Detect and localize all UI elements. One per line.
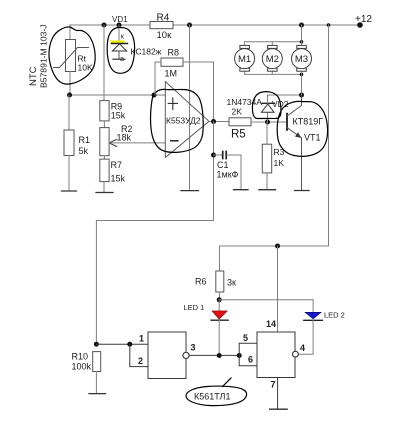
node collector junction bbox=[299, 93, 304, 98]
zener diode VD2 bbox=[262, 95, 275, 122]
svg-text:+12: +12 bbox=[355, 14, 372, 25]
svg-text:3: 3 bbox=[191, 343, 196, 353]
svg-text:1: 1 bbox=[139, 334, 144, 344]
annotation blob around VD1 bbox=[107, 28, 134, 74]
wire pin 7 bbox=[277, 378, 279, 410]
wire output down to C1 bbox=[213, 122, 215, 221]
wire top +12 rail right segment bbox=[173, 24, 360, 26]
wire R7 bottom lead bbox=[103, 182, 105, 193]
svg-text:100k: 100k bbox=[72, 362, 92, 372]
node R6/LED junction bbox=[217, 297, 222, 302]
svg-text:R3: R3 bbox=[274, 147, 285, 157]
wire motor bottom bus bbox=[245, 73, 302, 75]
node junction rail/VD1 bbox=[117, 23, 122, 28]
annotation blob around Rt bbox=[49, 27, 95, 84]
svg-text:M1: M1 bbox=[238, 54, 251, 65]
wire pin 2 bracket bbox=[130, 344, 148, 366]
svg-text:B57891-M 103-J: B57891-M 103-J bbox=[39, 24, 49, 88]
wire Rt top lead bbox=[69, 25, 71, 40]
svg-text:14: 14 bbox=[266, 319, 276, 329]
svg-text:VT1: VT1 bbox=[304, 133, 321, 143]
wire R2-R7 link bbox=[103, 156, 105, 159]
svg-text:10K: 10K bbox=[78, 63, 93, 73]
ground VT1 emitter bbox=[295, 190, 310, 192]
wire mid rail bbox=[70, 94, 166, 96]
node junction rail/R1 bbox=[67, 93, 72, 98]
node pin1/pin2 bracket junction bbox=[127, 342, 132, 347]
svg-text:LED 2: LED 2 bbox=[324, 311, 345, 320]
wire R5 right to base node bbox=[251, 121, 287, 123]
resistor R5 bbox=[229, 107, 251, 141]
svg-text:R4: R4 bbox=[157, 13, 170, 24]
node junction rail/R9 bbox=[102, 23, 107, 28]
node op-amp output junction bbox=[211, 119, 216, 124]
wire VD2 cathode to collector node bbox=[268, 94, 302, 96]
svg-text:4: 4 bbox=[300, 343, 305, 353]
svg-text:R10: R10 bbox=[72, 352, 89, 362]
zener diode VD1 bbox=[112, 34, 128, 63]
wire R8 left lead bbox=[155, 62, 161, 95]
resistor R9 bbox=[100, 101, 126, 121]
potentiometer R2 bbox=[100, 124, 133, 156]
node R10/pin1 junction bbox=[94, 342, 99, 347]
wire pin 14 drop bbox=[277, 246, 279, 332]
svg-text:C1: C1 bbox=[217, 160, 229, 170]
node base junction bbox=[265, 120, 270, 125]
svg-text:R1: R1 bbox=[79, 135, 91, 145]
svg-text:R6: R6 bbox=[195, 277, 207, 287]
ground R3 bbox=[259, 189, 276, 191]
resistor R8 bbox=[161, 48, 183, 79]
svg-text:2: 2 bbox=[138, 356, 143, 366]
wire LED anode rail bbox=[219, 299, 313, 301]
wire pins 5-6 bracket bbox=[239, 343, 257, 366]
svg-text:18k: 18k bbox=[117, 133, 132, 143]
wire gate1 out to gate2 in bbox=[189, 354, 239, 356]
svg-text:M3: M3 bbox=[295, 54, 308, 65]
ground C1 bbox=[234, 189, 249, 191]
svg-text:NTC: NTC bbox=[28, 66, 39, 86]
svg-text:2K: 2K bbox=[232, 107, 243, 117]
resistor R1 bbox=[64, 95, 90, 191]
zener diode VD1 yellow highlight bbox=[110, 40, 124, 44]
svg-text:10к: 10к bbox=[157, 30, 173, 41]
node junction pin14 feed bbox=[275, 244, 280, 249]
annotation blob around VT1 bbox=[277, 101, 327, 156]
motor M2 bbox=[262, 42, 282, 75]
capacitor C1 bbox=[211, 152, 241, 190]
node bottom bus junction bbox=[300, 73, 304, 77]
annotation blob around К561ТЛ1 bbox=[186, 378, 247, 406]
resistor R6 bbox=[195, 271, 236, 300]
svg-text:R5: R5 bbox=[231, 129, 246, 141]
node top bus junction bbox=[300, 40, 304, 44]
node junction rail/motors bbox=[299, 23, 304, 28]
LED 2 (blue) bbox=[298, 300, 345, 354]
ground op-amp bbox=[181, 190, 199, 192]
svg-text:VD1: VD1 bbox=[112, 15, 128, 24]
wire top +12 rail left segment bbox=[70, 24, 150, 26]
LED 1 (red) bbox=[184, 300, 229, 356]
wire R9-R2 link bbox=[103, 121, 105, 128]
node gate2 input junction bbox=[237, 353, 242, 358]
annotation blob around op-amp bbox=[151, 89, 204, 152]
svg-text:15k: 15k bbox=[111, 174, 126, 184]
node +12 terminal bbox=[357, 22, 363, 28]
ground pin 7 bbox=[270, 408, 288, 410]
svg-text:К561ТЛ1: К561ТЛ1 bbox=[194, 392, 230, 402]
wire M3 bottom to collector bbox=[301, 71, 303, 95]
wire R8 right lead bbox=[183, 62, 214, 122]
gate U2.2 output bubble bbox=[293, 351, 299, 357]
svg-text:1N4734A: 1N4734A bbox=[227, 97, 263, 107]
wire analog out to gate 1 input bbox=[96, 221, 213, 345]
svg-text:3к: 3к bbox=[227, 278, 236, 288]
svg-text:M2: M2 bbox=[266, 54, 279, 65]
svg-text:1мкФ: 1мкФ bbox=[217, 170, 239, 180]
node junction rail/logic supply bbox=[327, 23, 331, 27]
op-amp U1 K553УД2 bbox=[165, 82, 209, 158]
transistor Q1 VT1 KT819 bbox=[287, 95, 323, 191]
motor M1 bbox=[235, 42, 255, 75]
wire motor top bus bbox=[245, 41, 302, 43]
svg-text:R8: R8 bbox=[168, 48, 180, 58]
ground R10 bbox=[89, 393, 106, 395]
svg-text:7: 7 bbox=[271, 380, 276, 390]
wire +12 down to motors bbox=[301, 25, 303, 45]
svg-text:К553УД2: К553УД2 bbox=[166, 116, 201, 126]
node junction op-amp + input bbox=[152, 93, 157, 98]
thermistor Rt bbox=[54, 40, 93, 73]
svg-text:R7: R7 bbox=[111, 160, 123, 170]
wire +12 right drop to logic bbox=[220, 25, 329, 271]
gate U2.2 box bbox=[257, 332, 295, 378]
wire R9 column top bbox=[103, 25, 105, 101]
gate U2.1 box bbox=[148, 332, 186, 379]
wire op-amp output bbox=[209, 121, 229, 123]
svg-text:1М: 1М bbox=[165, 69, 178, 79]
svg-text:LED 1: LED 1 bbox=[184, 303, 205, 312]
ground R7 bbox=[96, 192, 113, 194]
svg-text:15k: 15k bbox=[111, 111, 126, 121]
svg-text:КТ819Г: КТ819Г bbox=[293, 117, 324, 127]
wire pin 1 input bbox=[96, 343, 148, 345]
wire R2 wiper to op-amp - input bbox=[109, 142, 165, 144]
svg-text:5: 5 bbox=[243, 333, 248, 343]
gate U2.1 output bubble bbox=[183, 352, 189, 358]
svg-text:5k: 5k bbox=[79, 146, 89, 156]
node LED1 cathode junction bbox=[217, 353, 222, 358]
resistor R10 bbox=[72, 352, 101, 394]
svg-text:1K: 1K bbox=[274, 158, 285, 168]
motor M3 bbox=[292, 45, 312, 71]
resistor R4 bbox=[150, 13, 173, 42]
annotation blob around VD2 bbox=[252, 92, 281, 119]
svg-text:а: а bbox=[120, 56, 124, 63]
wire Rt bottom lead bbox=[69, 72, 71, 96]
resistor R7 bbox=[100, 159, 126, 183]
wire op-amp power line bbox=[189, 25, 191, 191]
ground R1 bbox=[62, 190, 77, 192]
svg-text:6: 6 bbox=[248, 355, 253, 365]
wire VD1 top lead bbox=[118, 25, 120, 40]
node junction rail/op-amp power bbox=[187, 23, 192, 28]
resistor R3 bbox=[262, 122, 284, 190]
